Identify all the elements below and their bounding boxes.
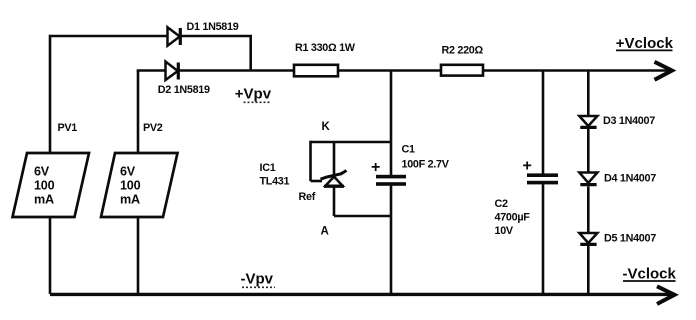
resistor R1 (294, 42, 356, 76)
svg-text:R1 330Ω 1W: R1 330Ω 1W (295, 42, 356, 54)
svg-text:D2 1N5819: D2 1N5819 (158, 84, 210, 96)
svg-text:C2: C2 (495, 198, 508, 210)
svg-text:IC1: IC1 (260, 162, 276, 174)
wire rail R1 to R2 (338, 69, 441, 72)
wire left vertical PV1 top (49, 35, 52, 153)
node label +Vpv (235, 86, 272, 103)
diode D1 1N5819 (168, 21, 239, 46)
capacitor C1 (371, 144, 450, 186)
wire PV2 vertical top (137, 71, 140, 154)
wire Ref bracket horizontal (311, 180, 323, 183)
svg-text:K: K (322, 121, 331, 133)
svg-text:C1: C1 (402, 144, 415, 156)
svg-text:100: 100 (120, 179, 141, 193)
svg-text:mA: mA (34, 193, 54, 207)
svg-text:D1 1N5819: D1 1N5819 (187, 21, 239, 33)
wire D1 cathode to corner down to +Vpv rail (180, 36, 251, 71)
diode D5 1N4007 (579, 233, 656, 245)
wire D3 to D4 (587, 129, 590, 173)
node label -Vpv (241, 271, 276, 288)
svg-text:PV2: PV2 (143, 122, 163, 134)
op-amp U1 shunt regulator IC1 TL431 (260, 162, 347, 188)
node label -Vclock with arrow (623, 266, 677, 304)
svg-text:4700µF: 4700µF (495, 212, 531, 224)
node label +Vclock with arrow (616, 35, 674, 80)
wire node A horizontal to C1 branch (334, 215, 391, 218)
svg-text:+Vclock: +Vclock (616, 35, 674, 52)
wire rail R2 to +Vclock arrow (483, 69, 670, 72)
wire diode chain above D3 (587, 71, 590, 117)
svg-text:100: 100 (34, 179, 55, 193)
svg-text:R2 220Ω: R2 220Ω (442, 45, 484, 57)
svg-text:+: + (523, 158, 532, 175)
svg-text:D5 1N4007: D5 1N4007 (604, 233, 656, 245)
wire top-left horizontal from left rail to D1 anode (50, 35, 167, 38)
svg-text:-Vpv: -Vpv (241, 271, 274, 288)
resistor R2 (441, 45, 484, 76)
wire left vertical PV1 bottom (49, 217, 52, 295)
capacitor C2 (495, 158, 559, 237)
svg-text:mA: mA (120, 193, 140, 207)
svg-text:10V: 10V (495, 225, 514, 237)
svg-text:TL431: TL431 (260, 176, 290, 188)
solar panel PV2 (101, 122, 178, 217)
wire C1 branch upper (390, 71, 393, 176)
wire main +Vpv rail D2 to R1 (178, 69, 294, 72)
diode D2 1N5819 (158, 62, 210, 97)
wire PV2 vertical bottom (137, 217, 140, 295)
diode D4 1N4007 (579, 173, 656, 185)
wire TL431 anode vertical (333, 187, 336, 217)
svg-text:6V: 6V (34, 165, 50, 179)
svg-text:A: A (321, 226, 329, 238)
wire D5 to bottom rail (587, 246, 590, 294)
wire K node horizontal (311, 141, 392, 144)
svg-text:PV1: PV1 (58, 122, 78, 134)
svg-text:+Vpv: +Vpv (235, 86, 272, 103)
wire C2 branch lower (542, 184, 545, 294)
wire D4 to D5 (587, 186, 590, 233)
wire Ref bracket vertical (309, 141, 312, 181)
svg-text:-Vclock: -Vclock (623, 266, 677, 283)
svg-text:6V: 6V (120, 165, 136, 179)
diode D3 1N4007 (579, 115, 655, 127)
svg-text:Ref: Ref (299, 191, 316, 203)
solar panel PV1 (13, 122, 90, 217)
wire K pin vertical (333, 142, 336, 175)
wire D2 anode segment (137, 69, 165, 72)
wire C2 branch upper (542, 71, 545, 174)
svg-text:100F 2.7V: 100F 2.7V (402, 159, 450, 171)
svg-text:D3 1N4007: D3 1N4007 (603, 115, 655, 127)
wire bottom -Vpv rail (50, 293, 672, 296)
svg-text:D4 1N4007: D4 1N4007 (604, 173, 656, 185)
svg-text:+: + (371, 159, 380, 176)
wire C1 branch lower (390, 186, 393, 294)
